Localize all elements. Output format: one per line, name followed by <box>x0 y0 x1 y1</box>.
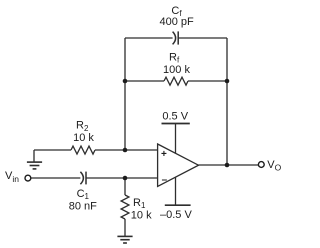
svg-text:Rf: Rf <box>169 52 180 65</box>
svg-text:Vin: Vin <box>5 170 19 184</box>
svg-text:10 k: 10 k <box>73 132 94 144</box>
svg-text:VO: VO <box>267 159 281 172</box>
svg-text:+: + <box>161 149 167 160</box>
svg-text:C1: C1 <box>77 188 90 201</box>
svg-text:400 pF: 400 pF <box>159 16 194 28</box>
svg-text:R1: R1 <box>133 197 146 210</box>
svg-text:10 k: 10 k <box>131 210 152 222</box>
svg-text:–: – <box>162 175 168 186</box>
svg-text:100 k: 100 k <box>163 64 190 76</box>
svg-text:80 nF: 80 nF <box>69 201 97 213</box>
svg-text:R2: R2 <box>76 120 89 133</box>
svg-text:–0.5 V: –0.5 V <box>160 209 192 221</box>
svg-text:0.5 V: 0.5 V <box>162 110 188 122</box>
